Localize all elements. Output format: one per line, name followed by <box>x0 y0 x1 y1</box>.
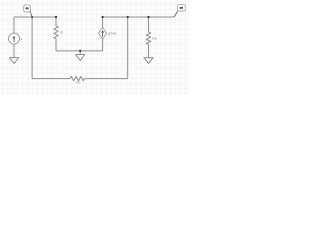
svg-text:Ru: Ru <box>152 36 156 40</box>
svg-text:RL: RL <box>76 80 80 84</box>
svg-text:gmvd: gmvd <box>108 32 116 36</box>
